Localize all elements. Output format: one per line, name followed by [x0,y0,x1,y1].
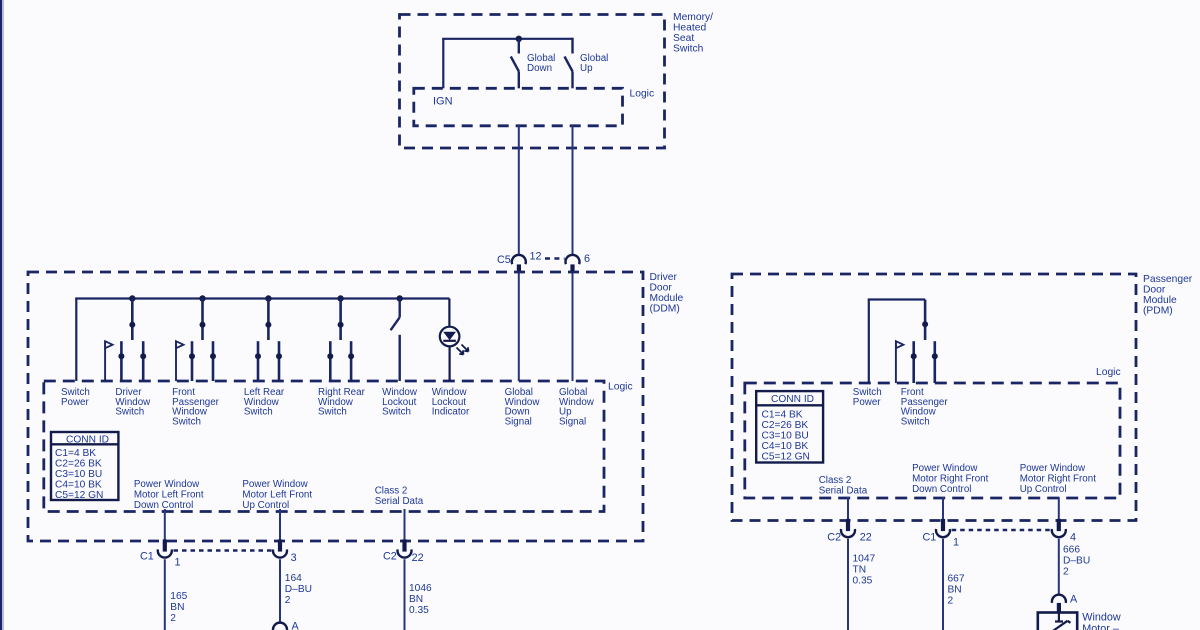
switch: Global Up blade [565,57,573,72]
logic box (memory switch) [414,88,623,126]
wire: 164 D-BU circuit [279,559,281,622]
table: CONN ID (PDM) [756,391,823,462]
switch: Global Down lower stub [518,72,520,89]
connector: C2 pin 22 tick [402,539,406,551]
wire: global window up signal into DDM [572,273,574,381]
svg-text:Logic: Logic [1096,367,1121,378]
svg-text:4: 4 [1070,532,1076,544]
svg-text:1: 1 [953,537,959,549]
wire: dashed jumper C1 pins [174,549,272,551]
table: CONN ID (DDM) [51,432,118,501]
svg-text:C1: C1 [923,532,937,544]
connector: C1 pin 4 cup (PDM) [1052,529,1066,537]
connector: C5 pin 6 tick [570,264,574,272]
connector: C2 pin 22 cup [398,549,412,557]
connector: in-line A (right) tick [1057,603,1061,612]
switch: Global Up lower stub [571,72,573,89]
svg-text:C2: C2 [383,550,397,562]
wire: 666 D-BU circuit [1058,539,1060,595]
svg-text:SwitchPower: SwitchPower [853,387,882,408]
wire: global window down signal into DDM [518,273,520,381]
wire: class 2 to C2 (PDM) [847,497,849,521]
connector: C1 pin 1 tick [163,539,167,551]
connector: C1 pin 3 cup [273,549,287,557]
svg-text:Logic: Logic [630,88,655,99]
svg-text:GlobalDown: GlobalDown [527,53,555,74]
switch: Driver Window Switch [105,295,146,381]
module box: Driver Door Module (DDM) [28,272,643,541]
connector: C5 pin 12 tick [517,264,521,272]
wire: global down signal (memory to C5) [518,126,520,255]
svg-text:1: 1 [175,557,181,569]
switch: Right Rear Window Switch [327,295,354,381]
connector: in-line A (left) [273,623,287,630]
switch: Global Down upper stub [518,39,520,54]
connector: C1 pin 1 tick (PDM) [941,519,945,531]
connector: C2 pin 22 cup (PDM) [841,529,855,537]
wire: 165 BN circuit [164,559,166,630]
wire: down control to C1 [164,509,166,541]
logic box (DDM) [44,381,604,512]
wire: class 2 serial data to C2 [404,509,406,541]
svg-text:CONN ID: CONN ID [771,394,814,405]
svg-text:22: 22 [412,552,424,564]
connector: C1 pin 1 cup (PDM) [936,529,950,537]
module box: Memory/Heated Seat Switch [400,15,665,149]
svg-text:C2: C2 [827,532,841,544]
connector: C2 pin 22 tick (PDM) [846,519,850,531]
svg-text:3: 3 [291,552,297,564]
wire: dashed jumper C1 pins (PDM) [952,529,1050,531]
svg-text:C5: C5 [497,254,511,266]
svg-text:C1: C1 [140,550,154,562]
left edge stripe [0,0,2,630]
connector: C1 pin 3 tick [278,539,282,551]
connector: C5 pin 6 arc [566,255,580,264]
wire: global up signal (memory to C5) [572,126,574,255]
svg-text:SwitchPower: SwitchPower [61,387,90,408]
wire: 667 BN circuit [942,539,944,630]
switch: Window Lockout Switch [391,295,403,381]
wire: IGN riser [442,39,444,89]
svg-text:WindowMotor –: WindowMotor – [1082,612,1121,630]
svg-text:12: 12 [530,251,542,263]
module box: Passenger Door Module (PDM) [732,274,1136,521]
wire: up control to pin 3 [279,509,281,541]
switch: Left Rear Window Switch [255,295,282,381]
wire: dashed connector jumper C5 [545,257,565,259]
svg-text:A: A [1070,594,1078,606]
switch: Global Up upper stub [571,38,573,54]
switch: Global Down blade [511,57,519,72]
LED: Window Lockout Indicator [440,299,469,382]
wire: switch power riser [75,299,77,382]
connector: C5 pin 12 arc [512,255,526,264]
motor symbol (partial) [1054,621,1071,630]
wire: up control to pin 4 (PDM) [1058,497,1060,521]
svg-text:IGN: IGN [433,96,453,108]
wire: 1046 BN circuit [404,559,406,630]
wire: 1047 TN circuit [847,539,849,630]
wire: DDM bus [75,297,449,299]
svg-text:6: 6 [584,253,590,265]
svg-text:22: 22 [860,532,872,544]
wire: PDM bus [868,298,925,300]
wire: down control to C1 (PDM) [942,497,944,521]
svg-text:WindowLockoutIndicator: WindowLockoutIndicator [432,387,470,418]
wire: into window motor [1058,612,1060,622]
connector: C1 pin 1 cup [158,549,172,557]
wire: switch power riser (PDM) [868,300,870,384]
connector: in-line A (right) arc [1052,595,1066,603]
svg-text:Logic: Logic [608,382,633,393]
svg-text:A: A [292,621,300,630]
connector: C1 pin 4 tick (PDM) [1057,519,1061,531]
logic box (PDM) [745,383,1120,498]
switch: Front Passenger Window Switch (PDM) [896,300,938,384]
switch: Front Passenger Window Switch (DDM) [176,295,216,381]
component box: Window Motor [1038,613,1077,630]
wire: memory bus [442,38,572,40]
node: bus junction dot [516,36,522,42]
